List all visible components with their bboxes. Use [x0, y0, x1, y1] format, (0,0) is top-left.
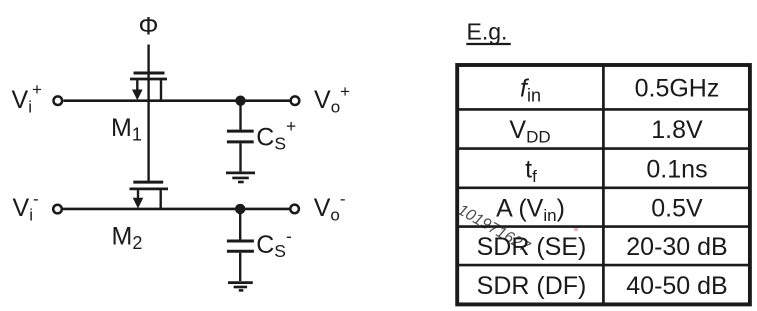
svg-text:Vo+: Vo+ [314, 82, 350, 117]
svg-text:M1: M1 [111, 114, 142, 145]
transistor M2 [130, 182, 169, 209]
input terminal Vi+ [54, 96, 63, 105]
table: spec table frame [457, 65, 750, 304]
ground (below CS+) [226, 173, 255, 182]
svg-text:tf: tf [525, 155, 537, 186]
input terminal Vi- [53, 205, 62, 214]
output terminal Vo+ [291, 96, 300, 105]
transistor M1 [130, 73, 167, 101]
svg-text:1.8V: 1.8V [651, 116, 703, 144]
capacitor CS+ [227, 101, 254, 172]
svg-text:0.5V: 0.5V [651, 194, 703, 222]
svg-text:A (Vin): A (Vin) [496, 194, 565, 225]
svg-text:Vi+: Vi+ [12, 80, 42, 117]
svg-text:E.g.: E.g. [467, 19, 508, 45]
junction node bottom (wire to CS-) [235, 204, 245, 214]
svg-text:40-50 dB: 40-50 dB [626, 272, 727, 300]
svg-text:20-30 dB: 20-30 dB [626, 233, 727, 261]
svg-text:VDD: VDD [509, 116, 550, 147]
svg-text:fin: fin [520, 74, 541, 105]
svg-text:Vo-: Vo- [314, 190, 346, 225]
ground (below CS-) [228, 283, 253, 291]
output terminal Vo- [290, 205, 299, 214]
svg-text:Φ: Φ [139, 13, 159, 41]
svg-text:0.1ns: 0.1ns [646, 155, 707, 183]
label E.g. (underlined heading) [466, 19, 511, 45]
svg-text:Vi-: Vi- [13, 190, 39, 225]
svg-text:0.5GHz: 0.5GHz [635, 74, 720, 102]
wire: top rail Vi+ to Vo+ [64, 99, 291, 102]
artifact pink dot [574, 227, 579, 232]
svg-text:M2: M2 [112, 222, 143, 253]
capacitor CS- [227, 209, 254, 281]
svg-text:SDR (SE): SDR (SE) [477, 233, 587, 261]
wire: clock line from Φ through M1 gate down to M2 gate [147, 45, 149, 183]
svg-text:CS+: CS+ [256, 116, 296, 154]
junction node top (wire to CS+) [235, 96, 245, 106]
svg-text:CS-: CS- [256, 226, 292, 261]
wire: bottom rail Vi- to Vo- [63, 208, 290, 211]
svg-text:SDR (DF): SDR (DF) [477, 272, 587, 300]
